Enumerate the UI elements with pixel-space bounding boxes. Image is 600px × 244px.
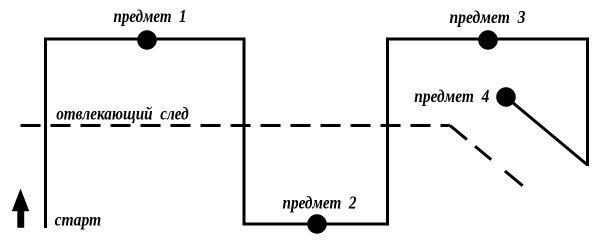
item marker dot 4 bbox=[496, 87, 516, 107]
wire: top horizontal segment 1 bbox=[44, 38, 246, 41]
wire: vertical segment up (middle-right) bbox=[386, 38, 389, 226]
svg-text:предмет 2: предмет 2 bbox=[283, 193, 357, 213]
wire: right vertical segment bbox=[586, 38, 589, 167]
wire: final diagonal segment to item 4 bbox=[506, 97, 588, 165]
wire: start leg vertical (left) bbox=[44, 39, 47, 228]
svg-text:старт: старт bbox=[55, 210, 102, 230]
wire: vertical segment down (middle-left) bbox=[243, 38, 246, 226]
dashed distraction trail: diagonal bbox=[450, 126, 523, 187]
svg-text:предмет 1: предмет 1 bbox=[114, 6, 187, 26]
dashed distraction trail: horizontal bbox=[21, 124, 451, 127]
svg-text:отвлекающий след: отвлекающий след bbox=[56, 104, 189, 124]
svg-text:предмет 3: предмет 3 bbox=[450, 7, 526, 27]
item marker dot 2 bbox=[307, 214, 327, 234]
wire: top horizontal segment 2 bbox=[386, 38, 589, 41]
svg-text:предмет 4: предмет 4 bbox=[414, 86, 489, 106]
item marker dot 1 bbox=[137, 30, 157, 50]
start arrow bbox=[12, 189, 30, 228]
item marker dot 3 bbox=[478, 30, 498, 50]
wire: bottom horizontal segment bbox=[243, 223, 390, 226]
